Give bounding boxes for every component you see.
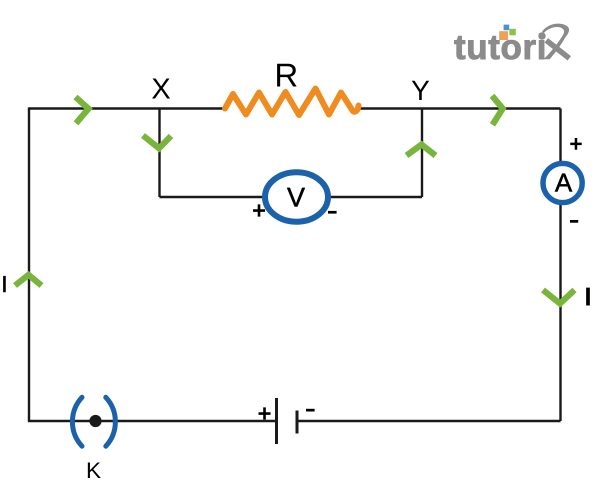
svg-text:K: K: [86, 458, 101, 483]
ammeter A: [543, 163, 582, 202]
key K plug dot: [89, 415, 101, 427]
voltmeter V: [265, 172, 328, 221]
current arrow on top-left wire: [76, 97, 89, 123]
svg-text:R: R: [274, 57, 298, 94]
svg-text:A: A: [555, 168, 573, 198]
svg-text:I: I: [1, 271, 7, 297]
svg-text:X: X: [151, 74, 170, 106]
tutorix logo: [454, 24, 569, 67]
current arrow up node Y branch: [407, 145, 436, 156]
current arrow on top-right wire: [492, 96, 503, 125]
ammeter minus polarity label: [570, 220, 578, 223]
svg-text:+: +: [252, 198, 266, 225]
svg-text:+: +: [569, 131, 582, 157]
current arrow down node X branch: [143, 136, 171, 149]
svg-text:I: I: [584, 282, 591, 312]
battery cell positive plate (long bar): [275, 398, 278, 444]
wire voltmeter branch horizontal: [160, 196, 423, 198]
battery cell negative plate (short bar): [296, 411, 299, 434]
wire branch at node X down to voltmeter loop: [158, 109, 160, 198]
wire top-right segment (resistor to right corner): [357, 107, 561, 109]
current arrow up left wire: [15, 275, 42, 286]
svg-text:V: V: [287, 183, 305, 213]
key K left contact arc: [72, 397, 82, 446]
voltmeter minus polarity label: [328, 211, 337, 214]
svg-text:+: +: [257, 401, 271, 428]
key K right contact arc: [106, 397, 116, 446]
wire left side: [28, 107, 30, 421]
wire right side: [559, 109, 561, 422]
resistor R zigzag: [225, 89, 359, 116]
wire bottom-left segment (to battery positive plate): [28, 420, 276, 422]
current arrow down right wire: [543, 290, 575, 304]
wire branch at node Y down to voltmeter loop: [421, 109, 423, 198]
svg-text:Y: Y: [411, 75, 430, 106]
wire bottom-right segment (from battery negative plate): [297, 420, 561, 422]
wire top-left segment (left corner to resistor): [29, 107, 225, 109]
battery minus polarity label: [306, 409, 315, 412]
